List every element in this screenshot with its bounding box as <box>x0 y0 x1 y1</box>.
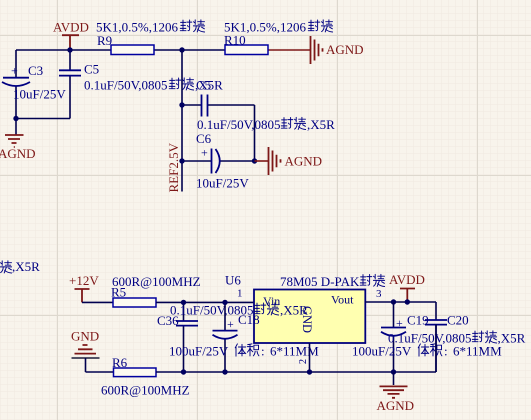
svg-text:C18: C18 <box>238 312 260 327</box>
U6 pin 2 <box>309 343 311 372</box>
capacitor C19 (polarized) <box>393 302 395 372</box>
resistor R10 <box>224 20 333 55</box>
svg-text:AGND: AGND <box>285 154 323 169</box>
svg-text:100uF/25V: 100uF/25V <box>352 344 412 359</box>
net label (clipped) X5R <box>0 261 11 273</box>
svg-text:+: + <box>201 146 208 160</box>
svg-text:C20: C20 <box>447 313 469 328</box>
wire R10 to AGND (power lead) <box>268 49 310 51</box>
capacitor C5 <box>69 50 71 119</box>
resistor R9 <box>96 20 205 55</box>
svg-text:C3: C3 <box>28 63 43 78</box>
power port AVDD (bottom) <box>400 289 415 303</box>
svg-text:100uF/25V: 100uF/25V <box>169 344 229 359</box>
svg-text:600R@100MHZ: 600R@100MHZ <box>101 383 190 398</box>
wire mid vertical REF2.5V <box>181 50 183 192</box>
svg-text:R6: R6 <box>112 355 128 370</box>
svg-text:5K1,0.5%,1206: 5K1,0.5%,1206 <box>96 20 178 35</box>
svg-text:REF2.5V: REF2.5V <box>166 142 181 192</box>
svg-text:3: 3 <box>376 288 382 300</box>
svg-text:,X5R: ,X5R <box>280 303 308 318</box>
resistor R5 <box>113 298 156 307</box>
svg-text:,X5R: ,X5R <box>307 117 335 132</box>
ground AGND (right of R10, sideways) <box>311 36 323 64</box>
svg-text:AVDD: AVDD <box>53 20 89 35</box>
svg-text:C5: C5 <box>84 62 99 77</box>
svg-text:+12V: +12V <box>69 273 99 288</box>
resistor R6 <box>114 368 157 377</box>
capacitor C5b (horizontal 0.1uF) <box>182 105 255 161</box>
wire C3 branch <box>16 50 70 119</box>
svg-text:AGND: AGND <box>0 146 36 161</box>
svg-text:C5: C5 <box>196 78 211 93</box>
capacitor C20 <box>425 320 447 325</box>
junction dot (AVDD/C5) <box>67 47 72 52</box>
svg-text:10uF/25V: 10uF/25V <box>13 87 66 102</box>
svg-text:R9: R9 <box>97 33 112 48</box>
svg-text:GND: GND <box>71 329 99 344</box>
wire top rail mid <box>154 49 225 51</box>
capacitor C3 (polarized) <box>2 78 30 86</box>
svg-text:2: 2 <box>298 359 309 364</box>
wire +12V to R5 <box>82 301 113 303</box>
svg-text:1: 1 <box>237 288 243 300</box>
svg-text:Vout: Vout <box>331 293 354 307</box>
capacitor C36 <box>183 302 185 372</box>
svg-text::: : <box>261 344 265 359</box>
power port +12V <box>75 289 90 302</box>
svg-text:78M05 D-PAK: 78M05 D-PAK <box>280 274 360 289</box>
junction dot (C3/AGND) <box>13 116 18 121</box>
svg-text:+: + <box>227 317 234 331</box>
svg-text:10uF/25V: 10uF/25V <box>196 176 249 191</box>
junction dot (C6/AGND) <box>252 158 257 163</box>
power port AVDD (top) <box>62 35 79 49</box>
svg-text:+: + <box>396 316 403 330</box>
svg-text:5K1,0.5%,1206: 5K1,0.5%,1206 <box>224 20 306 35</box>
svg-text:600R@100MHZ: 600R@100MHZ <box>112 274 201 289</box>
wire top rail left <box>16 49 111 51</box>
svg-text:6*11MM: 6*11MM <box>453 344 502 359</box>
junction dot (mid rail) <box>179 47 184 52</box>
svg-text:0.1uF/50V,0805: 0.1uF/50V,0805 <box>197 117 281 132</box>
svg-text:Vin: Vin <box>263 294 280 308</box>
ground AGND (bottom right) <box>393 372 395 385</box>
svg-text:,X5R: ,X5R <box>12 259 40 274</box>
svg-text:+: + <box>11 64 18 78</box>
junction dot (mid/C6) <box>179 158 184 163</box>
IC U6 78M05 <box>225 273 385 344</box>
wire R5 to U6 <box>156 301 254 303</box>
svg-text:AGND: AGND <box>326 42 364 57</box>
svg-text:,X5R: ,X5R <box>498 331 526 346</box>
svg-text::: : <box>444 344 448 359</box>
svg-text:R10: R10 <box>224 33 246 48</box>
ground AGND (below C3) <box>15 119 17 135</box>
junction dots top rail bottom circuit <box>181 300 186 305</box>
capacitor C18 (polarized) <box>224 302 226 372</box>
svg-text:6*11MM: 6*11MM <box>270 344 319 359</box>
wire bottom rail <box>156 325 436 372</box>
junction dot (mid/cap) <box>179 102 184 107</box>
capacitor C6 (polarized horizontal) <box>182 160 255 162</box>
svg-text:U6: U6 <box>225 273 241 288</box>
svg-text:C6: C6 <box>196 131 212 146</box>
svg-text:AGND: AGND <box>377 398 415 413</box>
wire U6 Vout rail <box>365 302 436 320</box>
svg-text:0.1uF/50V,0805: 0.1uF/50V,0805 <box>84 78 168 93</box>
svg-text:AVDD: AVDD <box>389 272 425 287</box>
ground AGND (right of C6, sideways) <box>255 160 269 162</box>
